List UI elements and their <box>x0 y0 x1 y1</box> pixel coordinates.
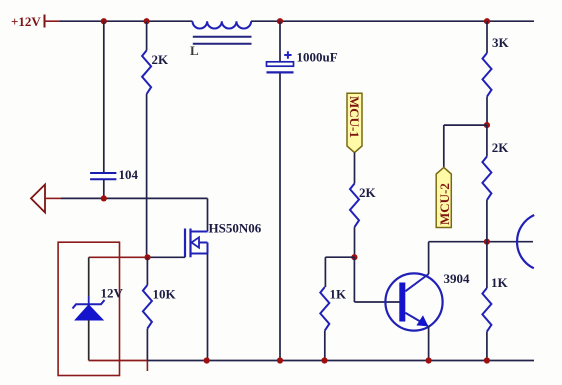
power port +12V <box>11 14 61 29</box>
inductor L <box>190 21 252 58</box>
bottom rail <box>147 360 534 362</box>
resistor R 2K right <box>482 125 509 242</box>
wire top rail right <box>251 20 534 22</box>
transistor Q 3904 <box>385 271 470 331</box>
wire output row <box>61 198 208 231</box>
zener diode D 12V <box>73 257 124 360</box>
svg-text:MCU-1: MCU-1 <box>347 96 362 138</box>
svg-text:1K: 1K <box>330 287 348 302</box>
resistor R 1K left <box>320 287 347 361</box>
svg-text:3K: 3K <box>492 35 510 50</box>
mosfet U HS50N06 <box>185 221 262 258</box>
resistor R 2K mid <box>350 184 377 258</box>
node junction top 4 <box>484 18 490 24</box>
svg-text:12V: 12V <box>101 286 124 301</box>
svg-text:2K: 2K <box>492 140 510 155</box>
wire MCU-1 to resistor <box>354 153 356 184</box>
wire to MCU-2 <box>444 125 487 167</box>
node junction base <box>351 254 357 260</box>
wire gate <box>148 256 186 258</box>
resistor R 1K right <box>482 242 508 361</box>
svg-text:3904: 3904 <box>444 271 471 286</box>
node junction gate <box>144 254 150 260</box>
wire emitter <box>428 326 430 361</box>
svg-text:10K: 10K <box>153 287 177 302</box>
resistor R 2K left <box>142 21 169 257</box>
wire collector <box>429 242 533 274</box>
svg-text:MCU-2: MCU-2 <box>437 183 452 225</box>
bottom rail red segment <box>89 361 148 372</box>
wire red gate-zener <box>89 256 148 258</box>
svg-text:HS50N06: HS50N06 <box>209 221 262 236</box>
svg-text:+12V: +12V <box>11 14 41 29</box>
wire top rail left <box>60 20 193 22</box>
svg-text:2K: 2K <box>152 52 170 67</box>
net flag MCU-1 <box>347 93 362 152</box>
capacitor C 1000uF <box>267 21 338 360</box>
resistor R 10K <box>143 257 177 360</box>
node junction top 3 <box>277 18 283 24</box>
node junction bottom 5 <box>484 357 490 363</box>
node junction bottom 1 <box>204 357 210 363</box>
svg-text:1000uF: 1000uF <box>297 50 338 65</box>
svg-text:1K: 1K <box>491 275 509 290</box>
svg-text:L: L <box>190 43 199 58</box>
rectangle highlight box <box>58 242 119 375</box>
capacitor C 104 <box>90 167 138 198</box>
svg-text:104: 104 <box>119 167 139 182</box>
wire mosfet source <box>207 254 209 361</box>
node junction collector <box>484 239 490 245</box>
wire base <box>354 257 399 302</box>
resistor R 3K <box>483 21 510 125</box>
node junction bottom 2 <box>277 357 283 363</box>
node junction bottom 3 <box>321 357 327 363</box>
wire base node left <box>325 257 354 287</box>
node junction output <box>101 195 107 201</box>
wire left column <box>103 21 105 172</box>
port input triangle <box>31 185 61 213</box>
node junction mid-right <box>484 122 490 128</box>
svg-text:2K: 2K <box>359 185 377 200</box>
net flag MCU-2 <box>436 167 452 227</box>
node junction bottom 4 <box>426 357 432 363</box>
transistor Q right partial <box>517 215 534 268</box>
node junction top 2 <box>144 18 150 24</box>
node junction top 1 <box>101 18 107 24</box>
